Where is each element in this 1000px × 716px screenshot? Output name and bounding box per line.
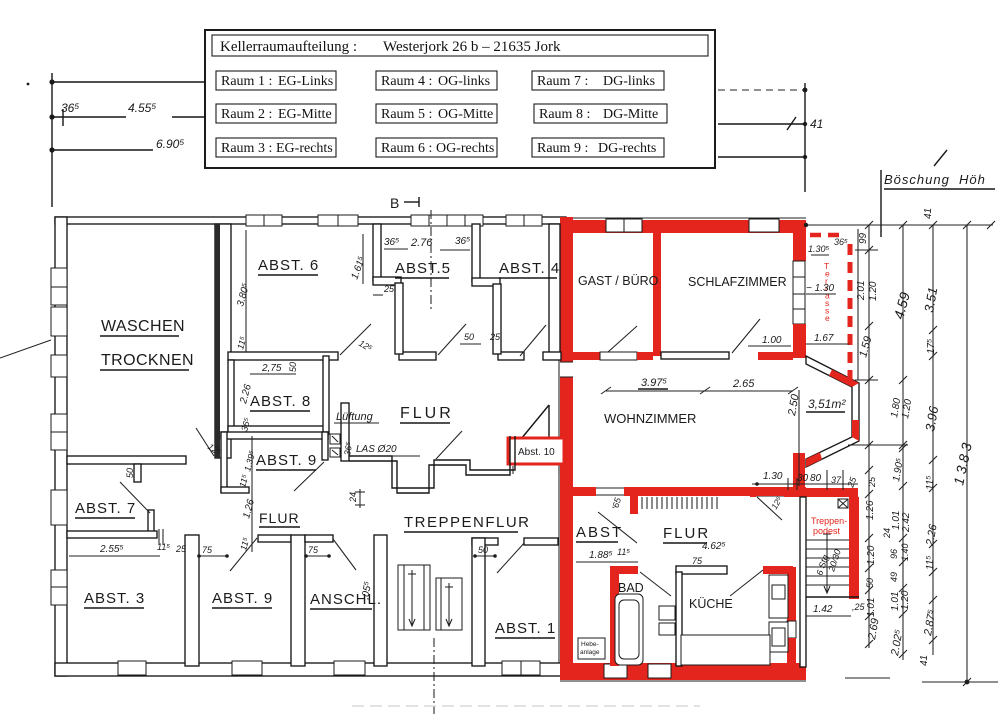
svg-text:KÜCHE: KÜCHE <box>689 597 733 611</box>
svg-text:30: 30 <box>797 473 809 484</box>
svg-text:Raum 6 :: Raum 6 : <box>381 141 432 156</box>
window left 5 <box>51 490 67 525</box>
SCHLAF bottom wall <box>661 352 729 359</box>
svg-text:Raum 9 :: Raum 9 : <box>537 141 588 156</box>
svg-text:Raum 3 :: Raum 3 : <box>221 141 272 156</box>
bathtub <box>615 594 643 665</box>
svg-text:25: 25 <box>383 284 395 294</box>
stub below waschen wall <box>134 464 141 482</box>
svg-text:Raum 2 :: Raum 2 : <box>221 107 272 122</box>
svg-text:41: 41 <box>923 208 934 219</box>
label ABST 9 upper <box>256 452 317 470</box>
svg-text:2.65: 2.65 <box>732 378 755 390</box>
wall lueftung <box>341 403 349 461</box>
stair treads <box>806 540 849 585</box>
label LAS <box>342 441 420 457</box>
legend box <box>205 30 715 168</box>
wall abst5 right upper <box>472 224 480 282</box>
Boeschung Hoeh label <box>881 150 995 237</box>
label TREPPENFLUR <box>404 514 531 532</box>
svg-text:1.30: 1.30 <box>763 471 783 482</box>
corridor zigzag wall outer <box>349 436 515 488</box>
svg-text:25: 25 <box>867 476 877 488</box>
dim 2.75 / 50 <box>250 362 298 374</box>
anschl right wall <box>374 535 387 666</box>
dim 3.51qm <box>806 397 846 412</box>
label WASCHEN <box>100 318 185 336</box>
label ABST 3 <box>84 590 145 608</box>
svg-text:BAD: BAD <box>618 581 644 595</box>
dim 75 anschl <box>304 545 331 558</box>
window bottom 2 <box>232 661 262 675</box>
door swing SCHLAF <box>732 319 760 353</box>
red top wall apartment <box>560 220 806 233</box>
door kueche right <box>787 621 796 638</box>
bay window walls <box>806 356 859 467</box>
svg-text:41: 41 <box>919 655 930 666</box>
stair right red wall <box>849 497 859 599</box>
KUECHE top wall black <box>676 566 727 574</box>
dim 2.55 row <box>69 542 229 558</box>
red left wall apartment <box>560 217 573 676</box>
svg-text:GAST / BÜRO: GAST / BÜRO <box>578 274 659 288</box>
red right wall upper <box>793 220 806 261</box>
svg-text:2.42: 2.42 <box>901 512 912 533</box>
chain top line <box>806 224 993 226</box>
door swing abst1 <box>497 541 526 573</box>
legend Raum 1 <box>216 71 336 90</box>
wall waschen right <box>215 224 231 458</box>
dim group top-right <box>718 83 823 192</box>
svg-text:1.26: 1.26 <box>865 500 876 520</box>
wall abst7 right stub <box>148 510 154 537</box>
chain line 1 <box>868 225 870 648</box>
window right wall 1 <box>793 261 805 294</box>
svg-text:Raum 7 :: Raum 7 : <box>537 74 588 89</box>
svg-text:anlage: anlage <box>580 649 600 656</box>
dim 1.61 <box>349 234 367 284</box>
dim line to legend <box>52 81 205 83</box>
wall h1 b <box>399 352 436 360</box>
window bottom 3 <box>334 661 365 675</box>
label ABST 1 <box>495 620 556 638</box>
vertical dim line right of legend <box>804 83 806 192</box>
svg-text:1.42: 1.42 <box>813 604 833 615</box>
Abst10 box <box>508 405 564 474</box>
wall abst4 left lower <box>493 284 501 354</box>
door swing abst7 <box>120 482 150 513</box>
chain line 3 <box>932 225 934 655</box>
dim line 41 <box>718 123 805 125</box>
svg-text:Raum 4 :: Raum 4 : <box>381 74 432 89</box>
svg-text:Raum 1 :: Raum 1 : <box>221 74 272 89</box>
dim 1.88 row <box>576 547 638 562</box>
svg-text:99: 99 <box>858 232 869 244</box>
svg-text:49: 49 <box>889 572 899 582</box>
svg-text:Raum 8 :: Raum 8 : <box>539 107 590 122</box>
divider GAST SCHLAF red <box>653 221 661 356</box>
svg-text:OG-links: OG-links <box>438 74 490 89</box>
svg-text:ABST. 6: ABST. 6 <box>258 257 319 274</box>
window top 2 <box>318 215 358 226</box>
KUECHE top red segment <box>763 566 793 574</box>
door swing abst9 upper <box>294 462 324 491</box>
bay red segment bottom <box>806 452 822 467</box>
wall abst7 bottom <box>67 531 157 538</box>
svg-text:2,75: 2,75 <box>261 363 282 374</box>
stair arrow <box>823 530 831 593</box>
svg-text:41: 41 <box>810 117 823 131</box>
dim -1.30 terrace <box>806 283 836 294</box>
symbol box stair <box>838 499 848 508</box>
svg-text:25: 25 <box>489 332 501 342</box>
BAD KUECHE divider <box>676 572 682 666</box>
legend Raum 7 <box>532 71 664 90</box>
svg-text:1.40: 1.40 <box>900 543 910 561</box>
svg-text:Westerjork 26 b – 21635 Jork: Westerjork 26 b – 21635 Jork <box>383 39 561 55</box>
wall h1 a <box>228 352 338 360</box>
bay red segment right <box>852 420 859 441</box>
door gap wohnzimmer wall <box>596 487 624 496</box>
black wall left of red wall <box>549 224 560 356</box>
svg-text:50: 50 <box>478 545 488 555</box>
svg-text:3,51m²: 3,51m² <box>808 397 846 411</box>
section axis bottom <box>433 638 435 714</box>
svg-text:4.62⁵: 4.62⁵ <box>702 541 726 552</box>
svg-text:17⁵: 17⁵ <box>926 339 937 354</box>
svg-text:50: 50 <box>288 362 298 372</box>
window left 1 <box>51 268 67 305</box>
svg-text:3.97⁵: 3.97⁵ <box>641 377 667 389</box>
svg-text:1.20: 1.20 <box>900 590 911 610</box>
red stub below wohn wall <box>630 494 638 514</box>
red wall below bay <box>793 453 805 497</box>
abst1 left wall <box>472 538 485 666</box>
kitchen appliance 1 <box>769 575 788 618</box>
svg-text:WASCHEN: WASCHEN <box>101 318 185 335</box>
label FLUR big <box>400 405 454 423</box>
window red top 2 <box>749 219 779 232</box>
svg-text:11⁵: 11⁵ <box>157 542 170 552</box>
dim 1.42 <box>806 602 866 616</box>
svg-text:2.01: 2.01 <box>856 281 867 301</box>
svg-text:11⁵: 11⁵ <box>925 475 936 490</box>
svg-text:ABST: ABST <box>576 524 623 541</box>
legend Raum 6 <box>376 138 497 157</box>
dim line lower <box>718 156 805 158</box>
svg-text:ABST.5: ABST.5 <box>395 260 451 277</box>
washbasin <box>659 606 675 635</box>
dim line 4.55 <box>52 116 126 118</box>
kitchen appliance 2 <box>769 622 788 652</box>
door swing abst6 <box>340 324 371 355</box>
wall abst5 right jog <box>472 278 500 286</box>
label FLUR red <box>663 525 710 543</box>
svg-text:Raum 5 :: Raum 5 : <box>381 107 432 122</box>
label Lueftung <box>334 411 379 423</box>
svg-text:SCHLAFZIMMER: SCHLAFZIMMER <box>688 275 787 289</box>
door swing abst5 <box>438 324 466 355</box>
svg-text:ABST. 4: ABST. 4 <box>499 260 560 277</box>
dim 25 abst5 <box>373 284 395 295</box>
exterior bottom wall <box>55 663 566 676</box>
legend title bar <box>212 35 708 56</box>
chain tick marks <box>865 221 995 686</box>
svg-text:TREPPENFLUR: TREPPENFLUR <box>404 514 531 531</box>
door swing GAST <box>608 326 637 352</box>
svg-text:FLUR: FLUR <box>259 510 300 526</box>
WOHNZIMMER bottom red wall <box>573 487 806 496</box>
label ABST 8 <box>250 393 311 411</box>
svg-text:11⁵: 11⁵ <box>617 547 630 557</box>
svg-text:24: 24 <box>348 492 358 503</box>
window top 5 <box>506 215 542 226</box>
svg-text:TROCKNEN: TROCKNEN <box>101 352 194 369</box>
stair bottom line <box>806 596 859 598</box>
svg-text:EG-Mitte: EG-Mitte <box>278 107 332 122</box>
svg-text:50: 50 <box>865 578 875 588</box>
door swing anschl <box>333 539 356 570</box>
svg-text:1.01: 1.01 <box>866 598 877 617</box>
door swing abst9 bottom <box>230 538 257 571</box>
svg-text:Kellerraumaufteilung :: Kellerraumaufteilung : <box>220 39 357 55</box>
svg-text:DG-links: DG-links <box>603 74 655 89</box>
bay red segment top <box>829 370 859 388</box>
BAD top red wall <box>610 566 638 574</box>
door swing waschen <box>196 428 214 456</box>
terrace dashed boundary <box>810 229 858 380</box>
svg-text:50: 50 <box>125 468 135 478</box>
dim group top-left <box>27 73 205 207</box>
window top 4 <box>447 215 483 226</box>
svg-text:4.55⁵: 4.55⁵ <box>128 101 156 115</box>
stair left black wall <box>800 497 806 667</box>
svg-text:50: 50 <box>464 332 474 342</box>
window right wall 2 <box>793 294 805 324</box>
svg-text:LAS Ø20: LAS Ø20 <box>356 444 397 455</box>
stair shaft A <box>398 565 430 630</box>
wall h1 d <box>543 352 561 360</box>
Hebeanlage box <box>578 638 605 659</box>
window red top 1 <box>606 219 642 232</box>
svg-text:FLUR: FLUR <box>663 525 710 542</box>
legend Raum 9 <box>532 138 664 157</box>
svg-text:1.30⁵: 1.30⁵ <box>808 244 830 254</box>
door swing KUECHE <box>730 570 763 596</box>
svg-text:Lüftung: Lüftung <box>336 411 374 423</box>
chain labels col1 <box>856 232 882 641</box>
svg-text:ABST. 7: ABST. 7 <box>75 500 136 517</box>
svg-text:WOHNZIMMER: WOHNZIMMER <box>604 411 696 426</box>
svg-text:36⁵: 36⁵ <box>61 101 79 115</box>
window top 1 <box>246 215 282 226</box>
dim 50 25 doors <box>460 332 501 344</box>
svg-text:1.00: 1.00 <box>762 335 782 346</box>
label ABST 9 bottom <box>212 590 273 608</box>
abst1 top wall left <box>472 538 498 545</box>
dim 2.50 <box>786 390 802 486</box>
red bottom wall apartment <box>560 663 806 680</box>
svg-text:B: B <box>390 195 399 211</box>
svg-text:75: 75 <box>692 556 703 566</box>
svg-text:1.67: 1.67 <box>814 333 834 344</box>
svg-text:1.20: 1.20 <box>866 545 877 565</box>
exterior left wall <box>55 217 67 676</box>
dim 1.30-36 top terrace <box>808 237 848 255</box>
wall abst5 left upper <box>373 224 381 281</box>
GAST bottom red wall <box>573 352 600 360</box>
wall waschen bottom <box>67 456 186 464</box>
bottom rooms wall abst3-abst9 <box>185 535 199 666</box>
window bottom 1 <box>118 661 146 675</box>
door gap red left wall <box>560 362 573 377</box>
right margin dim chain lines <box>806 225 998 682</box>
svg-text:OG-Mitte: OG-Mitte <box>438 107 493 122</box>
window red bottom 2 <box>648 664 671 678</box>
kueche right red wall <box>787 567 796 621</box>
svg-text:11⁵: 11⁵ <box>925 555 936 570</box>
dim 1.67 <box>806 333 849 344</box>
svg-text:1.88⁵: 1.88⁵ <box>589 550 613 561</box>
svg-text:ABST. 3: ABST. 3 <box>84 590 145 607</box>
abst9 bottom top wall <box>258 535 291 542</box>
svg-text:36⁵: 36⁵ <box>834 237 848 247</box>
chain line 2 <box>902 225 904 660</box>
label ABST red <box>576 524 623 542</box>
chain labels col2 <box>882 290 914 657</box>
svg-text:Treppen-: Treppen- <box>811 516 847 526</box>
svg-text:Hebe-: Hebe- <box>581 641 599 648</box>
wall abst5 left jog <box>373 277 401 285</box>
anschl top wall <box>305 535 333 542</box>
svg-text:− 1.30: − 1.30 <box>806 283 835 294</box>
door swing abst4 <box>520 325 546 356</box>
wall abst9-anschl <box>291 535 305 666</box>
label FLUR small <box>259 510 300 527</box>
callout line left <box>0 340 51 358</box>
comb hatch wall <box>642 497 717 509</box>
exterior top wall <box>55 217 566 224</box>
svg-text:6.90⁵: 6.90⁵ <box>156 137 184 151</box>
svg-text:Böschung Höh: Böschung Höh <box>884 172 986 187</box>
svg-text:DG-Mitte: DG-Mitte <box>603 107 658 122</box>
svg-text:ABST. 9: ABST. 9 <box>256 452 317 469</box>
svg-text:2.76: 2.76 <box>410 237 433 249</box>
svg-text:80: 80 <box>810 473 822 484</box>
window left 2 <box>51 307 67 336</box>
svg-text:36⁵: 36⁵ <box>455 236 470 247</box>
svg-text:,25: ,25 <box>852 602 866 612</box>
svg-text:EG-Links: EG-Links <box>278 74 333 89</box>
door swing corridor <box>436 431 462 459</box>
section mark B <box>390 195 431 312</box>
stair shaft B <box>436 578 462 630</box>
scan artifact bottom <box>352 705 700 707</box>
label ABST 4 <box>499 260 560 278</box>
dim 50 abst1 <box>473 545 497 558</box>
dim 36-276-36 row <box>384 236 470 250</box>
wall abst5 left lower <box>395 283 403 354</box>
svg-text:Abst. 10: Abst. 10 <box>518 447 555 458</box>
BAD left red wall <box>610 566 619 666</box>
chain labels col3 <box>919 286 941 666</box>
legend Raum 8 <box>534 104 667 123</box>
svg-text:2.55⁵: 2.55⁵ <box>99 544 124 555</box>
svg-text:96: 96 <box>889 549 899 559</box>
label ABST 5 <box>395 260 451 278</box>
svg-text:podest: podest <box>813 526 841 536</box>
window top 3 <box>411 215 447 226</box>
wall h1 c <box>498 352 524 360</box>
svg-text:75: 75 <box>308 545 319 555</box>
dim 1.00 <box>748 335 791 346</box>
wall abst8 bottom <box>228 426 328 434</box>
window bottom 4 <box>502 661 540 675</box>
legend Raum 3 <box>216 138 336 157</box>
window left 6 <box>51 570 67 605</box>
label ABST 6 <box>258 257 319 275</box>
label TROCKNEN <box>100 352 194 370</box>
lueftung shaft boxes <box>330 434 340 457</box>
wall abst8 left <box>228 360 234 430</box>
kitchen counter <box>681 635 770 665</box>
dim line 6.90 <box>52 149 153 151</box>
dim 397 row <box>601 377 798 394</box>
label ABST 7 <box>75 500 136 518</box>
corridor zigzag wall inner <box>349 436 510 493</box>
label ANSCHL <box>310 591 382 609</box>
vertical dim line left <box>51 73 53 207</box>
wall abst8 right <box>323 356 329 434</box>
stair top red wall <box>750 488 858 497</box>
chain connectors <box>855 379 878 381</box>
legend Raum 2 <box>216 104 336 123</box>
chain line 4 <box>966 225 968 682</box>
svg-text:EG-rechts: EG-rechts <box>276 141 333 156</box>
svg-text:36⁵: 36⁵ <box>384 237 399 248</box>
legend Raum 5 <box>376 104 497 123</box>
svg-text:25: 25 <box>175 544 187 554</box>
svg-text:ABST. 1: ABST. 1 <box>495 620 556 637</box>
abst1 top wall right <box>524 538 558 545</box>
door swing abst red <box>598 512 637 543</box>
legend Raum 4 <box>376 71 497 90</box>
svg-text:DG-rechts: DG-rechts <box>598 141 656 156</box>
dim line vertical left column <box>246 230 252 552</box>
svg-text:ABST. 8: ABST. 8 <box>250 393 311 410</box>
window left 3 <box>51 355 67 377</box>
svg-text:1.20: 1.20 <box>868 281 879 301</box>
dim 1.30 row bay <box>752 470 859 490</box>
dim 24 <box>348 489 365 508</box>
svg-text:OG-rechts: OG-rechts <box>436 141 494 156</box>
svg-text:75: 75 <box>202 545 213 555</box>
door swing BAD <box>640 572 671 596</box>
window red bottom 1 <box>604 664 627 678</box>
room abst9 upper walls <box>221 432 328 493</box>
window left 4 <box>51 414 67 450</box>
svg-text:FLUR: FLUR <box>400 405 454 422</box>
svg-text:ABST. 9: ABST. 9 <box>212 590 273 607</box>
red right wall block 2 <box>793 324 806 358</box>
